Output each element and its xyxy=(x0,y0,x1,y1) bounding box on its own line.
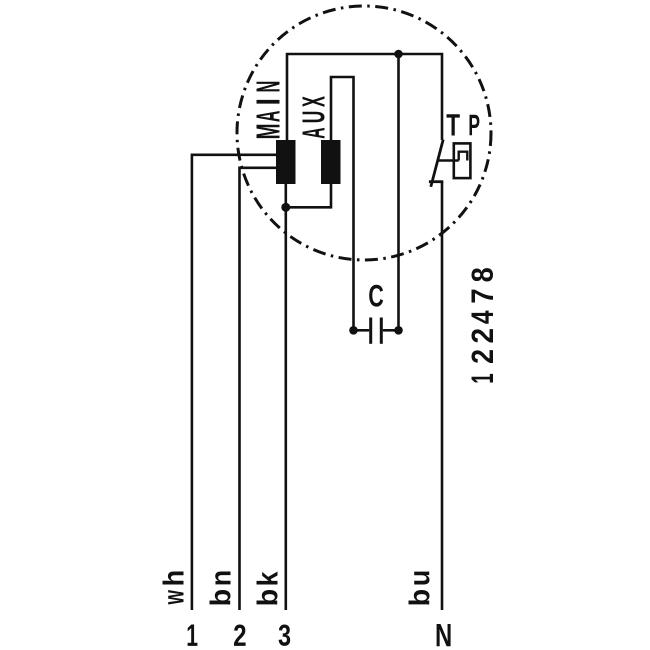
motor boundary (dash-dot circle) xyxy=(237,6,491,260)
label AUX xyxy=(303,96,325,138)
wire: MAIN bottom down to terminal 3 xyxy=(284,184,287,610)
terminal 1 xyxy=(188,625,198,646)
thermal protector TP body xyxy=(454,143,471,178)
label 122478 (part number) xyxy=(472,268,494,382)
node: capacitor right dot xyxy=(394,326,403,335)
wire: AUX bottom to junction xyxy=(286,184,331,207)
wire: capacitor left lead xyxy=(354,329,370,332)
wire: capacitor right lead xyxy=(383,329,399,332)
wire: AUX top to capacitor left plate xyxy=(331,77,354,330)
label bn (wire colour) xyxy=(210,572,231,605)
node: junction dot on top bus xyxy=(394,50,403,59)
wire: junction down to capacitor right plate xyxy=(397,54,400,330)
label TP letter P xyxy=(470,115,480,135)
terminal N xyxy=(437,624,451,646)
terminal 3 xyxy=(279,625,291,646)
node: capacitor left dot xyxy=(349,326,358,335)
wire: top bus from MAIN top to TP drop xyxy=(287,54,442,140)
wire: TP tap xyxy=(438,159,459,162)
main winding MAIN (black block) xyxy=(276,140,296,184)
terminal 2 xyxy=(234,625,246,646)
wire: terminal 1 lead to MAIN xyxy=(192,155,276,610)
label MAIN xyxy=(257,82,280,138)
thermal protector TP contact bar xyxy=(429,180,443,183)
aux winding AUX (black block) xyxy=(321,140,341,184)
label TP letter T xyxy=(447,114,460,135)
capacitor C left plate xyxy=(369,318,372,344)
label bk (wire colour) xyxy=(257,572,278,605)
thermal protector TP inner element xyxy=(459,152,468,161)
wire: terminal 2 lead to MAIN xyxy=(240,168,277,610)
label C xyxy=(369,285,383,307)
label wh (wire colour) xyxy=(163,572,184,605)
capacitor C right plate xyxy=(380,318,383,344)
thermal protector TP switch lever xyxy=(431,140,443,187)
label bu (wire colour) xyxy=(409,572,430,605)
wire: TP bottom to terminal N xyxy=(441,182,444,610)
node: junction dot MAIN/AUX bottom xyxy=(281,203,290,212)
